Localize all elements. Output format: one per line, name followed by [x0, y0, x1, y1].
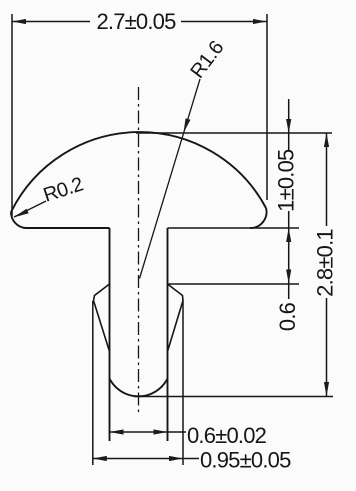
top dim line 2.7 — [12, 21, 90, 23]
R0.2 leader line — [14, 201, 46, 217]
arrow top-right — [253, 19, 267, 24]
dim line 1±0.05 / 0.6 vertical at x=288.7 — [288, 99, 290, 151]
crown left corner R0.2 — [11, 212, 25, 228]
top dim extension line left — [11, 14, 13, 216]
barb top extension line right — [168, 283, 300, 285]
arrow R0.2 — [14, 209, 29, 218]
fret crown dome arc — [11, 132, 266, 212]
crown underside left — [25, 227, 110, 229]
dim line 2.8 vertical at x=326.5 — [326, 133, 328, 226]
svg-text:0.95±0.05: 0.95±0.05 — [200, 448, 291, 473]
crown underside right + extension line — [168, 227, 300, 229]
arrow left 0.6 dim — [110, 429, 124, 434]
centerline dash-dot — [138, 87, 140, 415]
tang bottom extension line — [134, 396, 333, 398]
arrow up at crown top line (2.8) — [324, 133, 329, 147]
arrow right 0.95 dim — [169, 456, 183, 461]
bottom dim 0.95 line — [93, 458, 199, 460]
0.95 extension line right — [182, 301, 184, 465]
0.95 extension line left — [92, 301, 94, 465]
arrow down at crown top line (1±0.05) — [286, 119, 291, 133]
top dim extension line right — [266, 14, 268, 200]
crown right corner R0.2 — [250, 208, 267, 228]
R1.6 leader line — [140, 79, 201, 279]
arrow left 0.95 dim — [93, 456, 107, 461]
svg-text:2.8±0.1: 2.8±0.1 — [313, 229, 338, 297]
crown top extension line — [136, 132, 332, 134]
arrow right 0.6 dim — [154, 429, 168, 434]
arrow down at tang bottom line (2.8) — [324, 382, 329, 396]
tang right side — [167, 228, 169, 441]
arrow up at underside line — [286, 228, 291, 242]
arrow top-left — [12, 19, 26, 24]
left barb — [94, 284, 110, 352]
svg-text:0.6±0.02: 0.6±0.02 — [187, 423, 267, 448]
svg-text:1±0.05: 1±0.05 — [274, 149, 299, 212]
bottom dim 0.6 line — [110, 431, 187, 433]
tang bottom U — [110, 379, 168, 397]
svg-text:2.7±0.05: 2.7±0.05 — [96, 9, 176, 34]
arrow down at barb top line — [286, 270, 291, 284]
right barb — [168, 284, 184, 352]
arrow R1.6 — [183, 118, 190, 133]
svg-text:0.6: 0.6 — [275, 302, 300, 331]
tang left side — [109, 228, 111, 441]
